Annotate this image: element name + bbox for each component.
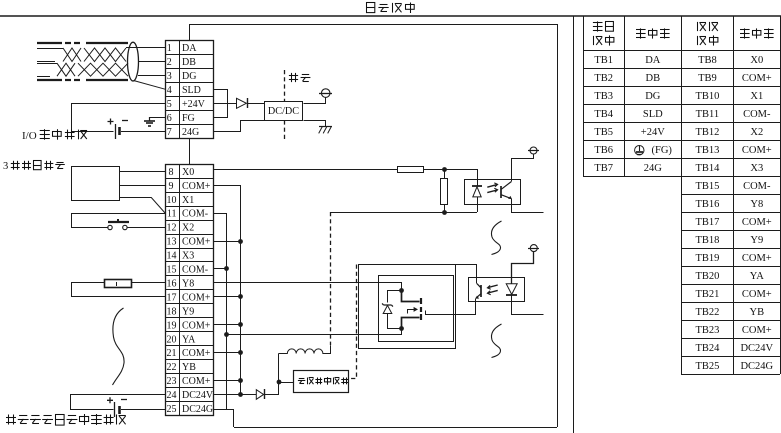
svg-text:X0: X0 — [182, 167, 194, 178]
inductor L1 — [279, 345, 331, 353]
wire pin11 COM- to bus — [214, 213, 227, 215]
resistor R1 — [398, 167, 424, 173]
svg-text:I/O: I/O — [22, 130, 37, 142]
svg-text:19: 19 — [167, 320, 177, 331]
dashed internal link 2 — [349, 265, 357, 379]
svg-text:DC24V: DC24V — [182, 390, 214, 401]
PC2 phototransistor base bar — [480, 285, 482, 297]
PC2 LED triangle — [506, 284, 517, 295]
svg-text:COM+: COM+ — [182, 292, 211, 303]
PC2 collector — [477, 284, 481, 289]
output stage inner box — [379, 276, 454, 342]
wire sensor to pin9 COM+ — [119, 185, 166, 187]
svg-text:12: 12 — [167, 223, 177, 234]
svg-text:SLD: SLD — [182, 85, 201, 96]
PC1 LED cathode bar — [472, 185, 482, 187]
wire fuse loop to pin17 COM+ — [72, 283, 166, 297]
internal circuit terminal symbol E2 — [528, 147, 539, 154]
terminal block TB1-TB7 (pins 1-7: DA DB DG SLD +24V FG 24G) — [166, 40, 215, 139]
svg-text:DA: DA — [645, 55, 661, 66]
wire pin25 DC24G stub — [214, 409, 234, 411]
svg-text:1: 1 — [167, 43, 172, 54]
svg-text:TB9: TB9 — [698, 73, 717, 84]
svg-text:TB6: TB6 — [594, 145, 613, 156]
junction COM+ bus/DC24V — [238, 392, 243, 397]
svg-text:TB21: TB21 — [695, 289, 719, 300]
svg-text:TB16: TB16 — [695, 199, 719, 210]
title 外部连接 (external connection) — [366, 3, 414, 14]
PC2 light arrows — [487, 285, 497, 295]
label 输出部分外部供给电源 — [6, 414, 126, 425]
3-wire sensor box — [72, 167, 120, 201]
wire pin7 24G to DC/DC — [214, 121, 265, 132]
svg-text:YA: YA — [182, 334, 196, 345]
cable pair 2 (DG twisted) — [37, 63, 128, 76]
PC1 LED triangle — [473, 187, 481, 197]
fuse F1 — [105, 280, 132, 288]
COM- bus vertical — [226, 213, 228, 409]
wire pin24 DC24V to diode D2 — [214, 394, 256, 396]
output photocoupler PC2 box — [469, 278, 525, 302]
constant voltage circuit box 恒定电压回路 — [294, 371, 349, 393]
svg-text:COM-: COM- — [182, 265, 208, 276]
diode D1 — [237, 98, 248, 108]
wire pin9 COM+ to bus — [214, 185, 241, 187]
battery B2 minus sign — [121, 399, 127, 401]
svg-text:X1: X1 — [750, 91, 763, 102]
dashed internal link 1 — [330, 212, 332, 345]
svg-text:24G: 24G — [182, 127, 199, 138]
MOSFET Q1 drain lead — [402, 291, 422, 305]
svg-text:23: 23 — [167, 376, 177, 387]
svg-text:Y8: Y8 — [182, 278, 194, 289]
PC2 LED anode wire — [512, 252, 534, 284]
svg-text:DB: DB — [182, 57, 196, 68]
svg-text:COM-: COM- — [182, 209, 208, 220]
wire zener bottom branch — [388, 314, 402, 329]
PC1 light arrows — [487, 183, 497, 193]
svg-text:TB13: TB13 — [695, 145, 719, 156]
junction DC24V riser/constant-voltage box — [277, 380, 282, 385]
wire sensor to pin8 X0 — [119, 171, 166, 173]
svg-text:TB4: TB4 — [594, 109, 613, 120]
PC1 emitter with arrow — [501, 195, 511, 199]
svg-text:TB14: TB14 — [695, 163, 720, 174]
wire pin23 COM+ stub — [214, 380, 241, 382]
svg-text:+24V: +24V — [641, 127, 665, 138]
insulation boundary dashed line 绝缘 — [284, 70, 286, 141]
cable shield ellipse — [128, 42, 139, 81]
wire right trunk vertical — [557, 24, 559, 427]
output stage outer box — [359, 265, 456, 349]
chassis ground symbol G1 — [319, 126, 332, 133]
svg-text:16: 16 — [167, 278, 177, 289]
svg-text:TB23: TB23 — [695, 325, 719, 336]
svg-text:4: 4 — [167, 85, 172, 96]
junction pin13/COM+ bus — [238, 239, 243, 244]
svg-text:Y9: Y9 — [750, 235, 763, 246]
svg-text:COM+: COM+ — [742, 217, 772, 228]
wire zener top branch — [388, 291, 402, 303]
svg-text:3: 3 — [167, 71, 172, 82]
svg-text:14: 14 — [167, 251, 177, 262]
svg-text:COM+: COM+ — [742, 73, 772, 84]
svg-text:DG: DG — [182, 71, 196, 82]
wire R2 bottom stub — [444, 204, 446, 212]
table grid — [583, 16, 781, 375]
svg-text:TB12: TB12 — [695, 127, 719, 138]
PC2 LED cathode bar — [506, 294, 517, 296]
wire cable to pin 2 DB — [138, 61, 166, 63]
wire D2 to inductor riser — [265, 354, 279, 395]
svg-text:TB20: TB20 — [695, 271, 719, 282]
svg-text:TB17: TB17 — [695, 217, 719, 228]
svg-text:TB18: TB18 — [695, 235, 719, 246]
wire pin4 SLD to pin6 FG — [214, 90, 228, 118]
wire switch to pin12 X2 — [127, 227, 166, 229]
svg-text:+24V: +24V — [182, 99, 206, 110]
svg-text:COM-: COM- — [743, 109, 771, 120]
wire battery B2 to pin25 DC24G — [121, 409, 166, 411]
wire R1 to input LED — [424, 169, 477, 171]
wire to constant voltage box — [279, 382, 293, 384]
svg-text:X3: X3 — [182, 251, 194, 262]
svg-text:TB5: TB5 — [594, 127, 613, 138]
input squiggle (omitted circuit) — [491, 221, 501, 255]
svg-text:YA: YA — [750, 271, 764, 282]
svg-text:FG: FG — [182, 113, 195, 124]
svg-text:17: 17 — [167, 292, 177, 303]
svg-text:15: 15 — [167, 265, 177, 276]
title underline rule — [0, 15, 781, 17]
svg-text:TB25: TB25 — [695, 361, 719, 372]
earth ground symbol (FG) — [144, 117, 155, 126]
wire shield to pin 4 SLD — [134, 81, 166, 90]
input photocoupler PC1 box — [465, 180, 521, 205]
wire pin24 DC24V left loop — [71, 395, 166, 410]
svg-text:8: 8 — [169, 167, 174, 178]
wire pin5 +24V to diode D1 — [214, 103, 236, 105]
wire top trunk horizontal — [190, 24, 557, 26]
wire cable to pin 3 DG — [138, 75, 166, 77]
battery B1 plus sign — [108, 119, 114, 125]
wire PC1 emitter to internal circuit — [512, 199, 544, 213]
wire pin16 Y8 to MOSFET drain — [214, 283, 402, 291]
MOSFET Q1 source lead — [402, 314, 422, 329]
svg-text:COM+: COM+ — [182, 237, 211, 248]
svg-text:DC24V: DC24V — [740, 343, 773, 354]
wire DC/DC top output — [304, 98, 326, 104]
svg-text:TB11: TB11 — [696, 109, 720, 120]
svg-text:COM+: COM+ — [742, 289, 772, 300]
label 3线式传感器 — [3, 161, 65, 173]
internal circuit terminal symbol E3 — [528, 245, 539, 252]
wire PC1 LED to return rail — [477, 197, 479, 212]
wire block1 top riser — [189, 24, 191, 40]
wire pin21 COM+ stub — [214, 352, 241, 354]
junction pin23/COM+ bus — [238, 378, 243, 383]
junction pin17/COM+ bus — [238, 294, 243, 299]
svg-text:YB: YB — [750, 307, 765, 318]
push button S1 — [108, 219, 129, 230]
svg-text:24G: 24G — [644, 163, 663, 174]
battery B1 long plate (+) — [115, 124, 117, 139]
svg-text:18: 18 — [167, 306, 177, 317]
junction pin15/COM- bus — [224, 266, 229, 271]
svg-text:DC24G: DC24G — [740, 361, 773, 372]
label I/O模块电源 — [22, 129, 87, 142]
MOSFET Q1 gate lead arrow — [408, 310, 415, 314]
terminal block TB8-TB25 (pins 8-25: X/COM/Y/DC24V/DC24G) — [166, 164, 215, 416]
zener diode ZD1 — [382, 303, 393, 313]
input return rail — [331, 212, 477, 214]
wire pin6 FG to earth — [150, 117, 166, 119]
wire pin5 +24V left loop — [72, 104, 166, 132]
svg-text:22: 22 — [167, 362, 177, 373]
svg-text:20: 20 — [167, 334, 177, 345]
svg-text:COM+: COM+ — [742, 145, 772, 156]
wire X0 led drop — [477, 169, 479, 186]
junction R1 node/R2 — [442, 167, 447, 172]
svg-text:DG: DG — [645, 91, 661, 102]
diode D2 — [256, 389, 264, 399]
output squiggle (omitted circuit) — [491, 324, 501, 358]
resistor R2 (vertical) — [441, 179, 448, 205]
svg-text:DA: DA — [182, 43, 197, 54]
cable sheath outline (dashed break) — [37, 43, 128, 80]
svg-text:COM+: COM+ — [182, 348, 211, 359]
wire pin17 COM+ stub — [214, 296, 241, 298]
label 绝缘 — [289, 73, 311, 82]
svg-text:DC24G: DC24G — [182, 404, 213, 415]
svg-text:21: 21 — [167, 348, 177, 359]
wire pin16 Y8 to fuse — [132, 282, 166, 284]
battery B1 minus sign — [122, 120, 128, 122]
svg-text:COM+: COM+ — [742, 325, 772, 336]
junction source/zener — [399, 326, 404, 331]
wire DC24G riser — [233, 409, 235, 427]
svg-text:COM+: COM+ — [182, 320, 211, 331]
svg-text:TB1: TB1 — [594, 55, 613, 66]
junction COM- bus/0V rail — [224, 332, 229, 337]
junction pin21/COM+ bus — [238, 350, 243, 355]
svg-text:25: 25 — [167, 404, 177, 415]
junction pin19/COM+ bus — [238, 322, 243, 327]
wire diode D1 to DC/DC — [247, 103, 264, 105]
svg-text:X2: X2 — [182, 223, 194, 234]
svg-text:Y8: Y8 — [750, 199, 763, 210]
battery B2 short plate (-) — [118, 406, 121, 414]
wire PC1 collector to internal terminal — [512, 155, 534, 182]
COM+ bus vertical — [240, 185, 242, 394]
battery B2 plus sign — [107, 397, 113, 403]
svg-text:5: 5 — [167, 99, 172, 110]
svg-text:(FG): (FG) — [652, 145, 673, 156]
PC1 collector — [501, 182, 511, 190]
wire battery to pin7 24G — [121, 131, 166, 133]
svg-text:YB: YB — [182, 362, 196, 373]
wire between block1 and block2 — [189, 138, 191, 164]
svg-text:TB19: TB19 — [695, 253, 719, 264]
svg-text:COM+: COM+ — [182, 376, 211, 387]
wire pin19 COM+ stub — [214, 324, 241, 326]
table header labels — [593, 21, 774, 45]
wire bottom trunk horizontal — [234, 427, 557, 429]
svg-text:X2: X2 — [750, 127, 763, 138]
svg-text:7: 7 — [167, 127, 172, 138]
wire pin13 COM+ stub — [214, 241, 241, 243]
svg-text:TB10: TB10 — [695, 91, 719, 102]
wire PC2 LED cathode to internal circuit — [512, 295, 544, 315]
PC1 phototransistor base bar — [500, 186, 502, 198]
load squiggle (omitted loads) — [113, 308, 125, 385]
DC/DC converter U1 — [265, 102, 303, 121]
svg-text:X3: X3 — [750, 163, 763, 174]
junction drain/zener — [399, 288, 404, 293]
svg-text:COM+: COM+ — [742, 253, 772, 264]
svg-text:SLD: SLD — [643, 109, 663, 120]
wire A collector feed — [359, 265, 477, 284]
diagram/table separator line — [573, 16, 575, 433]
svg-text:11: 11 — [167, 209, 177, 220]
svg-text:TB24: TB24 — [695, 343, 720, 354]
svg-text:10: 10 — [167, 195, 177, 206]
battery B1 short plate (-) — [118, 127, 121, 135]
svg-text:DC/DC: DC/DC — [268, 106, 299, 117]
svg-text:TB22: TB22 — [695, 307, 719, 318]
svg-text:9: 9 — [169, 181, 174, 192]
svg-text:COM-: COM- — [743, 181, 771, 192]
wire pin11 COM- to switch — [72, 214, 166, 228]
svg-text:6: 6 — [167, 113, 172, 124]
svg-text:Y9: Y9 — [182, 306, 194, 317]
wire pin8 X0 to resistor R1 — [214, 169, 397, 171]
0V rail to source — [227, 329, 402, 335]
table data text — [594, 55, 773, 372]
svg-text:24: 24 — [167, 390, 177, 401]
svg-text:X1: X1 — [182, 195, 194, 206]
svg-text:TB8: TB8 — [698, 55, 717, 66]
svg-text:DB: DB — [646, 73, 661, 84]
MOSFET Q1 gate electrode — [420, 307, 422, 312]
wire pin15 COM- stub — [214, 268, 227, 270]
junction R2/input return rail — [442, 210, 447, 215]
svg-text:TB3: TB3 — [594, 91, 613, 102]
svg-text:COM+: COM+ — [182, 181, 211, 192]
svg-text:TB15: TB15 — [695, 181, 719, 192]
svg-text:2: 2 — [167, 57, 172, 68]
wire DC/DC bottom output — [304, 121, 326, 127]
svg-text:TB7: TB7 — [594, 163, 613, 174]
wire R2 top stub — [444, 169, 446, 178]
battery B2 long plate (+) — [114, 402, 116, 417]
svg-text:X0: X0 — [750, 55, 763, 66]
functional earth symbol E1 (circle) — [319, 89, 332, 98]
cable pair 1 (DA/DB twisted) — [37, 48, 126, 62]
PC2 emitter with arrow — [476, 293, 481, 298]
svg-text:13: 13 — [167, 237, 177, 248]
svg-text:TB2: TB2 — [594, 73, 613, 84]
wire PC2 emitter to gate — [426, 299, 476, 315]
wire cable to pin 1 DA — [126, 47, 166, 49]
wire sensor to pin11 COM- — [119, 198, 166, 214]
svg-text:3: 3 — [3, 161, 8, 172]
